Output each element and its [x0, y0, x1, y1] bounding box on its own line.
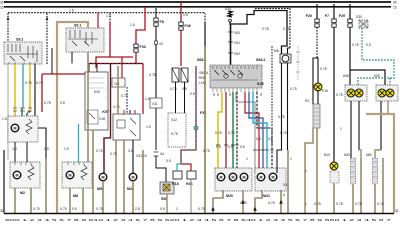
svg-text:X50: X50 — [234, 31, 240, 35]
svg-text:0.75: 0.75 — [377, 202, 384, 206]
wire black x27 low — [27, 112, 30, 116]
box H46 — [186, 171, 196, 186]
wire F7 long — [334, 27, 343, 162]
svg-text:0.5: 0.5 — [160, 207, 165, 211]
svg-text:F29: F29 — [339, 14, 345, 18]
labels left wires — [2, 81, 43, 121]
relay K97 — [102, 110, 140, 140]
junction arrow x243 — [241, 200, 245, 204]
wire brown R2 rail — [316, 128, 318, 213]
fuse F7 — [325, 4, 336, 27]
wire striped rdbk horizontal — [88, 63, 143, 65]
box S13 — [112, 78, 125, 87]
svg-text:M2: M2 — [20, 191, 25, 195]
svg-text:0.5: 0.5 — [240, 145, 245, 149]
fuse F33 — [130, 7, 146, 52]
wire cyan M8 feed — [78, 124, 80, 162]
wire dashed route right — [255, 9, 290, 49]
svg-text:E16: E16 — [322, 89, 328, 93]
wire drop to S9.2 — [7, 13, 10, 42]
svg-text:3.1: 3.1 — [128, 149, 133, 153]
fuse F20 — [306, 4, 319, 27]
ground rail — [4, 213, 394, 215]
cluster E30 — [345, 85, 367, 101]
wire E16 lower — [317, 90, 319, 104]
svg-text:1.5: 1.5 — [44, 147, 49, 151]
svg-text:1.5: 1.5 — [64, 147, 69, 151]
wire drop x110 red — [109, 13, 111, 57]
wire tan right harness — [366, 114, 394, 213]
motor M55 — [97, 173, 107, 191]
cluster M21 — [255, 168, 286, 198]
svg-text:F33: F33 — [140, 45, 146, 49]
wire brown K30 to rail — [92, 130, 94, 213]
lamp E18 — [324, 153, 338, 170]
K97 stubs — [124, 110, 135, 114]
wire black left edge — [3, 150, 5, 213]
svg-text:1.5: 1.5 — [130, 23, 135, 27]
wire F46 down — [180, 30, 182, 66]
svg-text:0.75: 0.75 — [36, 81, 43, 85]
svg-text:H46: H46 — [186, 182, 193, 186]
svg-text:0.75: 0.75 — [290, 87, 297, 91]
wire F20 to E16 — [313, 27, 327, 104]
svg-text:M8: M8 — [73, 194, 78, 198]
wire brown x118 upper — [117, 66, 119, 114]
svg-text:605: 605 — [374, 74, 380, 78]
wire cyan x24 — [22, 64, 24, 108]
wire brown E18 rail — [334, 183, 343, 213]
wire black cross to E50 — [350, 70, 385, 85]
wire striped rdbk x103 down — [96, 64, 111, 175]
box E18 holder — [330, 171, 339, 183]
wire brown R2 rail2 — [305, 128, 313, 213]
wire drop x47 — [46, 13, 49, 64]
svg-text:0.75: 0.75 — [240, 201, 247, 205]
wire black to M34 — [128, 140, 133, 173]
wire black x118 — [113, 87, 120, 114]
svg-text:S9.1: S9.1 — [74, 24, 81, 28]
wire connector column x222 — [228, 24, 290, 66]
svg-text:1: 1 — [340, 127, 342, 131]
junction arrow x281 — [279, 200, 283, 204]
svg-text:S30: S30 — [356, 15, 362, 19]
svg-text:1.5: 1.5 — [12, 147, 17, 151]
svg-text:0.5: 0.5 — [190, 92, 195, 96]
relay S9.1 — [66, 24, 104, 53]
wire black M21 foot — [280, 190, 282, 213]
wire brown M8 feet — [70, 188, 83, 213]
wire brown M34 to rail — [133, 181, 140, 213]
wire black m21b lower — [276, 173, 278, 190]
connector ticks left — [13, 108, 32, 111]
wire E30 foot brown — [359, 150, 361, 158]
connector sleeve E50 — [366, 153, 378, 184]
wire brown M2 feet — [15, 188, 31, 213]
wire red feed y57 — [96, 57, 133, 68]
svg-text:31: 31 — [0, 209, 4, 213]
wire yellow x30 — [29, 64, 31, 112]
wire black m21d dashed — [257, 92, 272, 173]
connector ticks m20 — [216, 145, 274, 150]
svg-text:F20: F20 — [306, 14, 312, 18]
fuse F29 — [339, 4, 352, 27]
svg-text:1: 1 — [246, 157, 248, 161]
wire red bundle — [245, 92, 259, 173]
connector ladder x298 — [296, 46, 300, 80]
wire arms to K18 H46 — [177, 163, 191, 171]
svg-text:K18: K18 — [172, 182, 179, 186]
wire drop x205 — [204, 13, 206, 22]
wire brown misc feet — [142, 150, 144, 213]
svg-text:15: 15 — [393, 5, 397, 9]
pump M4 upper — [8, 116, 38, 142]
svg-text:0.5: 0.5 — [366, 43, 371, 47]
svg-text:X51: X51 — [234, 41, 240, 45]
svg-text:0.75: 0.75 — [44, 101, 51, 105]
svg-text:0.75: 0.75 — [336, 93, 343, 97]
svg-text:30: 30 — [0, 1, 4, 5]
svg-text:600 1 2 3 4 5 6 7 8 9 610 1 2: 600 1 2 3 4 5 6 7 8 9 610 1 2 3 4 6 7 8 … — [5, 218, 392, 222]
motor M6 — [274, 49, 291, 63]
wires between M boxes — [15, 142, 27, 162]
wire yellow x15 — [14, 64, 16, 116]
wire red F33 down — [135, 52, 137, 64]
svg-text:K25: K25 — [257, 82, 264, 86]
svg-text:608: 608 — [343, 74, 349, 78]
svg-text:0.75: 0.75 — [355, 202, 362, 206]
wire tan harness over S9.1 — [57, 22, 88, 213]
cluster M20 — [215, 168, 252, 198]
svg-text:1: 1 — [305, 202, 307, 206]
labels 0.5 bundle — [215, 115, 287, 149]
svg-text:X4: X4 — [160, 152, 164, 156]
wire red m20 — [225, 92, 227, 173]
svg-text:0.75: 0.75 — [198, 207, 205, 211]
svg-text:0.75: 0.75 — [336, 202, 343, 206]
labels bottom sizes — [33, 202, 321, 211]
junction A24 — [225, 7, 232, 22]
svg-text:0.75: 0.75 — [228, 131, 235, 135]
svg-text:0.5: 0.5 — [72, 207, 77, 211]
svg-text:30: 30 — [393, 1, 397, 5]
pin ticks S68 — [214, 93, 261, 96]
wire black dashed x272 — [271, 46, 273, 150]
wire striped red-teal x196 — [181, 66, 198, 163]
wire teal drop E50 — [389, 78, 391, 85]
svg-text:R2: R2 — [305, 99, 309, 103]
wire F29 down — [349, 27, 351, 85]
cluster E50 — [376, 85, 398, 101]
wire X11 chain from F8 — [150, 98, 166, 182]
fuse F46 — [179, 2, 191, 30]
connector sleeve R2 — [305, 99, 320, 128]
svg-text:0.75: 0.75 — [262, 27, 269, 31]
wire red to S13 — [121, 57, 123, 78]
wire teal dashed route — [358, 28, 394, 85]
svg-text:0.75: 0.75 — [110, 152, 117, 156]
svg-text:1: 1 — [290, 157, 292, 161]
svg-text:X18: X18 — [99, 117, 105, 121]
svg-text:S68.2: S68.2 — [256, 58, 265, 62]
svg-text:0.75: 0.75 — [203, 149, 210, 153]
svg-text:A24: A24 — [225, 7, 231, 11]
svg-text:1: 1 — [176, 207, 178, 211]
wire brown M21 foot — [255, 190, 262, 213]
bus 15 — [4, 6, 391, 8]
wire tan x205 — [204, 46, 206, 213]
labels X34 — [240, 183, 289, 205]
svg-text:K30: K30 — [94, 90, 100, 94]
svg-text:K97: K97 — [102, 110, 109, 114]
svg-text:0.5: 0.5 — [60, 101, 65, 105]
wire black x184 — [184, 82, 186, 113]
svg-text:M21: M21 — [263, 194, 270, 198]
svg-text:0.75: 0.75 — [96, 149, 103, 153]
wire gray m21a — [236, 92, 255, 173]
svg-text:0.5: 0.5 — [166, 159, 171, 163]
wire brown K97 to rail — [116, 140, 124, 213]
svg-text:0.75: 0.75 — [60, 207, 67, 211]
connector S30 — [356, 15, 368, 28]
fuse pair boxes — [170, 68, 188, 91]
box K30 — [85, 72, 108, 130]
labels 608 605 — [343, 43, 380, 78]
svg-text:0.75: 0.75 — [352, 43, 359, 47]
junction arrow x213 — [211, 207, 215, 211]
relay S68 — [197, 58, 265, 92]
svg-text:M20: M20 — [226, 194, 233, 198]
wire black x35 — [35, 64, 46, 158]
svg-text:1.5: 1.5 — [2, 117, 7, 121]
wire tan x46 — [45, 158, 47, 213]
svg-text:0.75: 0.75 — [25, 81, 32, 85]
wire red S9.1 feed — [97, 13, 99, 30]
dashed feed bus left — [8, 8, 205, 12]
svg-text:0.75: 0.75 — [320, 67, 327, 71]
svg-text:S68.6: S68.6 — [199, 71, 208, 75]
svg-text:1.5: 1.5 — [145, 97, 150, 101]
wire E30 feet — [351, 101, 359, 158]
svg-text:1.5: 1.5 — [69, 8, 74, 12]
svg-text:0.5: 0.5 — [183, 13, 188, 17]
svg-text:0.75: 0.75 — [268, 201, 275, 205]
wire brown sleeve feet — [353, 158, 384, 213]
wire brown M55 to rail — [96, 181, 103, 213]
svg-text:15: 15 — [0, 5, 4, 9]
wire white x9 — [7, 64, 9, 160]
svg-text:0.5: 0.5 — [216, 145, 221, 149]
wire green bundle — [232, 92, 234, 173]
svg-text:S9.2: S9.2 — [16, 38, 23, 42]
svg-text:X32/10: X32/10 — [136, 154, 147, 158]
wire green x22 — [21, 108, 23, 116]
wire stubs K30 top — [89, 64, 97, 73]
wire E50 feet — [381, 101, 388, 150]
connector column box — [168, 113, 186, 147]
svg-text:B10: B10 — [324, 153, 330, 157]
wire red horiz y74 — [42, 74, 85, 112]
wire gray H46 foot — [190, 179, 192, 213]
svg-text:F46: F46 — [185, 24, 191, 28]
svg-text:0.75: 0.75 — [283, 27, 290, 31]
box S96 — [160, 182, 174, 201]
wire red x143 down — [143, 64, 150, 115]
wire black M6 right lead down — [287, 63, 289, 150]
wire yellow bundle — [218, 92, 222, 173]
svg-text:F7: F7 — [325, 14, 329, 18]
svg-text:4: 4 — [283, 193, 285, 197]
svg-text:0.75: 0.75 — [33, 207, 40, 211]
wire E50 foot brown — [375, 150, 381, 158]
wire black x52 — [51, 48, 53, 74]
svg-text:1.5: 1.5 — [146, 125, 151, 129]
svg-text:0.75: 0.75 — [96, 207, 103, 211]
wire F19 route — [230, 11, 287, 55]
svg-text:680: 680 — [366, 153, 372, 157]
wire black x176 — [175, 82, 177, 113]
wire black M6 left lead down — [277, 63, 297, 173]
svg-text:0.5: 0.5 — [228, 145, 233, 149]
wire black m20b — [236, 92, 238, 173]
svg-text:0.75: 0.75 — [121, 94, 128, 98]
connector sleeve E30 — [344, 153, 356, 184]
cluster M8 — [62, 162, 92, 198]
svg-text:0.75: 0.75 — [215, 131, 222, 135]
cluster M2 — [10, 162, 40, 195]
wire brown M20 foot — [213, 190, 223, 213]
box K10 — [172, 171, 182, 186]
fuse F8 — [154, 8, 164, 26]
svg-text:X12: X12 — [171, 118, 177, 122]
junction arrow x255 — [253, 207, 257, 211]
svg-text:M6: M6 — [274, 49, 279, 53]
svg-text:0.5: 0.5 — [256, 137, 261, 141]
wire brown S96 foot — [166, 194, 168, 213]
wire black x127 — [121, 87, 128, 114]
svg-text:X52: X52 — [234, 52, 240, 56]
wire F8 down — [149, 26, 163, 98]
svg-text:F8: F8 — [160, 20, 164, 24]
svg-text:2.5: 2.5 — [135, 207, 140, 211]
svg-text:0.75: 0.75 — [149, 73, 156, 77]
wire black S9.1 drop — [71, 52, 73, 64]
lamp E16 — [314, 83, 328, 93]
svg-text:X2: X2 — [159, 42, 163, 46]
label sprinkle — [12, 92, 342, 173]
svg-text:630: 630 — [344, 153, 350, 157]
svg-text:5.75: 5.75 — [171, 132, 178, 136]
svg-text:31: 31 — [395, 209, 399, 213]
motor M34 — [127, 173, 137, 191]
wire tan x288 rail — [287, 150, 289, 213]
svg-text:0.75: 0.75 — [314, 202, 321, 206]
wire brown M20 foot2 — [242, 190, 244, 213]
bus 30 — [4, 1, 391, 3]
svg-text:1: 1 — [305, 169, 307, 173]
wire blue bundle — [249, 92, 263, 173]
relay S9.2 — [4, 38, 42, 65]
svg-text:X11: X11 — [152, 102, 158, 106]
wire brown x88 — [87, 52, 89, 162]
wire cyan bundle — [253, 92, 267, 173]
